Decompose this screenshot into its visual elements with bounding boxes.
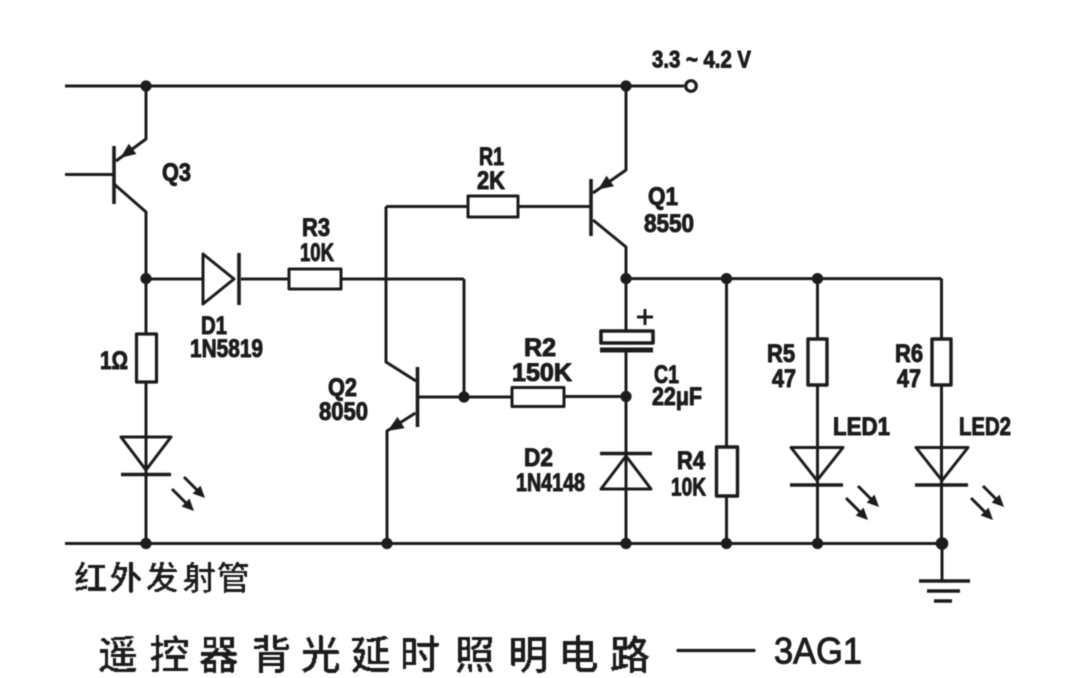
svg-text:R4: R4: [677, 447, 705, 475]
svg-text:1Ω: 1Ω: [100, 347, 128, 375]
svg-text:8550: 8550: [644, 210, 694, 238]
svg-text:10K: 10K: [671, 474, 706, 502]
svg-text:Q1: Q1: [648, 183, 678, 211]
svg-text:R6: R6: [895, 340, 923, 368]
svg-text:10K: 10K: [300, 239, 334, 267]
svg-text:R5: R5: [767, 340, 795, 368]
svg-text:22μF: 22μF: [652, 383, 702, 411]
svg-text:3.3 ~ 4.2 V: 3.3 ~ 4.2 V: [652, 47, 751, 74]
svg-text:Q3: Q3: [162, 159, 191, 187]
svg-text:3AG1: 3AG1: [774, 631, 862, 672]
svg-text:R2: R2: [524, 334, 556, 362]
svg-text:D2: D2: [524, 444, 553, 472]
svg-text:150K: 150K: [512, 359, 572, 387]
svg-text:LED1: LED1: [833, 413, 890, 441]
svg-text:47: 47: [772, 365, 796, 393]
svg-text:R3: R3: [302, 214, 330, 242]
svg-text:LED2: LED2: [959, 413, 1011, 441]
svg-text:1N5819: 1N5819: [190, 335, 263, 363]
svg-text:1N4148: 1N4148: [516, 469, 585, 497]
svg-text:2K: 2K: [477, 167, 505, 195]
svg-text:8050: 8050: [319, 398, 368, 426]
svg-text:47: 47: [897, 365, 921, 393]
